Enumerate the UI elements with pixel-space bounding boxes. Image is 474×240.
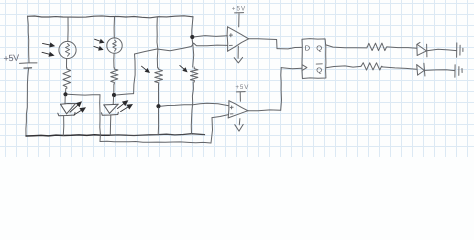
wire LDR1 drop (67, 17, 69, 41)
arrows into LDR2 (94, 39, 105, 51)
wire battery branch top (28, 16, 30, 62)
arrows into LDR1 (42, 42, 55, 56)
wire LED D1 to bottom rail (62, 116, 65, 135)
wire R4 to bottom rail (191, 82, 193, 134)
resistor R6 (361, 63, 382, 70)
label D input (305, 43, 311, 52)
wire vertical R3 top (156, 17, 159, 68)
label +5V supply (3, 53, 19, 64)
wire LDR2 drop (113, 17, 115, 38)
ground at U2 (235, 119, 243, 132)
ground at U1 (234, 46, 242, 63)
wire lower rail to U2 minus (100, 115, 228, 143)
U2 +5V power stub (236, 92, 245, 102)
node D junction (190, 35, 194, 39)
wire R3 to node C (158, 84, 160, 105)
wire LED D2 to bottom rail (109, 116, 112, 136)
LED D3 (417, 42, 427, 57)
photoresistor LDR1 (59, 41, 76, 58)
wire Q output (326, 45, 367, 48)
wire vertical right of LED1 (99, 95, 102, 142)
wire node B to LED2 (112, 97, 114, 104)
arrows out of LED D2 (117, 100, 133, 111)
op-amp U1 (227, 27, 249, 51)
wire R6 to D4 (382, 67, 416, 69)
wire node D to U1 non-inverting input (194, 36, 227, 37)
svg-text:+5V: +5V (235, 84, 249, 91)
battery B1 +5V plates (20, 63, 38, 68)
label Q output (316, 44, 322, 53)
wire LDR1 to R1 (66, 59, 68, 68)
resistor R5 (367, 43, 387, 51)
U1 +5V power stub (235, 13, 244, 27)
D flip-flop U3 (302, 39, 326, 79)
wire battery branch bottom (26, 69, 29, 136)
ground right upper (457, 43, 463, 57)
op-amp U2 (228, 101, 248, 118)
wire U1 output to D input (249, 39, 302, 49)
wire U2 output to clock (248, 68, 302, 111)
wire bottom rail (26, 134, 205, 136)
wire LDR2 to R2 (113, 53, 115, 67)
clock input chevron (302, 65, 307, 71)
arrows out of LED D1 (70, 101, 86, 115)
wire vertical from rail corner to R4 (192, 17, 194, 67)
wire Q-bar output (326, 66, 361, 68)
svg-text:Q: Q (316, 44, 322, 53)
wire node B riser (116, 54, 135, 95)
svg-text:+5V: +5V (232, 5, 246, 12)
resistor R4 (190, 67, 198, 82)
resistor R1 (63, 68, 71, 89)
resistor R3 (155, 68, 163, 84)
wire top +5V rail (28, 16, 194, 18)
svg-text:Q: Q (316, 65, 322, 74)
wire D4 to ground (425, 69, 455, 72)
wire node C to U2 non-inverting input (161, 103, 229, 106)
label +5V at U2 (235, 84, 249, 91)
LED D2 left (102, 104, 119, 115)
node B junction (112, 93, 116, 97)
resistor R2 (111, 68, 118, 85)
wire node A to LED1 (64, 96, 66, 104)
wire node A to right (68, 93, 100, 96)
svg-text:+5V: +5V (3, 53, 19, 64)
wire R5 to D3 (387, 47, 417, 48)
ground right lower (455, 65, 462, 78)
wire node C to bottom rail (157, 108, 159, 135)
wire node B to U1 inverting input (135, 43, 228, 54)
node A junction (63, 92, 67, 96)
LED D4 (417, 63, 425, 76)
wire D3 to ground (427, 49, 456, 51)
photoresistor LDR2 (107, 38, 122, 53)
arrow onto R4 (180, 65, 188, 72)
LED D1 left (58, 104, 76, 116)
wire R2 to node B (113, 84, 115, 93)
label +5V at U1 (232, 5, 246, 12)
wire R1 to node A (65, 89, 67, 93)
arrow onto R3 (142, 66, 151, 73)
node C junction (156, 104, 160, 108)
label Q-bar output (316, 64, 322, 75)
svg-text:D: D (305, 43, 311, 52)
